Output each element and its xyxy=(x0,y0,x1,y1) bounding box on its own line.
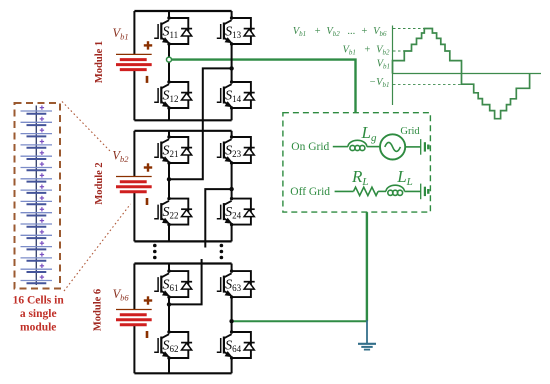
svg-text:Module 2: Module 2 xyxy=(94,162,105,204)
svg-text:16 Cells in: 16 Cells in xyxy=(13,295,65,307)
svg-text:Module 1: Module 1 xyxy=(94,41,105,83)
svg-text:module: module xyxy=(20,322,56,334)
svg-text:a single: a single xyxy=(20,308,57,320)
svg-text:Grid: Grid xyxy=(400,126,420,137)
svg-text:On Grid: On Grid xyxy=(291,141,329,153)
svg-text:Module 6: Module 6 xyxy=(93,289,104,331)
svg-text:Off Grid: Off Grid xyxy=(290,186,330,198)
svg-text:Vb1 + Vb2 ... + Vb6: Vb1 + Vb2 ... + Vb6 xyxy=(293,26,387,38)
